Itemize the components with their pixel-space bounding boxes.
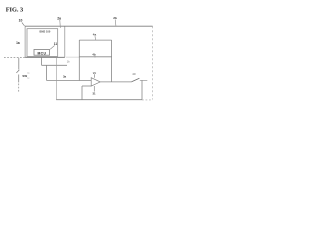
svg-text:31: 31 bbox=[93, 91, 97, 95]
svg-text:1a: 1a bbox=[16, 41, 20, 45]
svg-text:4a: 4a bbox=[93, 33, 97, 37]
svg-text:40: 40 bbox=[132, 72, 136, 76]
svg-text:4b: 4b bbox=[92, 53, 96, 57]
svg-text:FIG. 3: FIG. 3 bbox=[6, 6, 24, 13]
svg-text:3a: 3a bbox=[63, 75, 67, 79]
svg-text:MCU: MCU bbox=[37, 51, 46, 55]
svg-text:Vc: Vc bbox=[93, 71, 97, 75]
svg-text:BMS 100: BMS 100 bbox=[39, 29, 50, 33]
svg-text:2b: 2b bbox=[113, 16, 117, 20]
svg-text:2a: 2a bbox=[57, 16, 61, 20]
svg-text:10: 10 bbox=[19, 18, 23, 22]
